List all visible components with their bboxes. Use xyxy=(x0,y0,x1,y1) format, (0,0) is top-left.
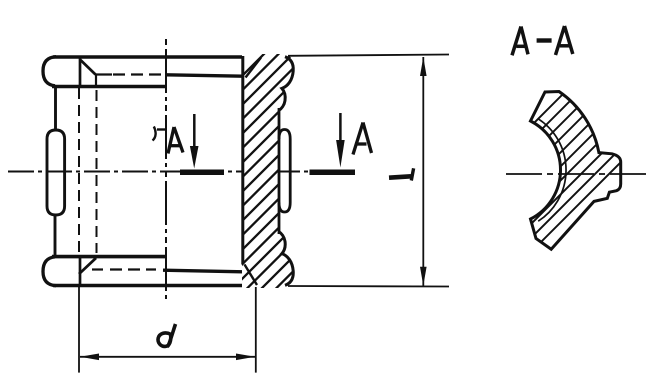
wire hatch band left edge xyxy=(241,56,244,265)
wire d dimension left extension line xyxy=(78,286,80,373)
node section label A left xyxy=(168,127,183,154)
node section cut mark left xyxy=(180,170,224,176)
node right band outline top bump xyxy=(279,57,293,111)
node left lug boss xyxy=(47,130,65,215)
wire L dimension top extension line xyxy=(288,55,449,56)
wire left body edge upper xyxy=(54,85,57,131)
wire hidden bore line left xyxy=(78,88,80,255)
node bottom-left end cap xyxy=(43,257,56,286)
wire section flag tick xyxy=(157,128,166,130)
node L dimension line with arrows xyxy=(422,57,424,286)
node d dimension line with arrows xyxy=(80,356,255,358)
wire bottom outline of body xyxy=(53,284,287,288)
wire hidden bore line inner left xyxy=(96,90,98,253)
wire bottom-left chamfer xyxy=(79,258,96,274)
node section arrow left xyxy=(193,114,196,148)
wire top-left chamfer xyxy=(80,60,96,75)
wire bottom inner line solid part xyxy=(92,268,103,270)
wire bottom inner line right of center xyxy=(163,270,243,272)
node right band outline bottom bump xyxy=(279,232,293,286)
node section A-A outline xyxy=(531,92,621,250)
wire bottom inner line hidden dashed xyxy=(110,268,156,270)
wire internal chamfer bottom right xyxy=(245,265,258,286)
wire hatch lines of section A-A xyxy=(495,75,650,288)
wire edge below top chamfer xyxy=(95,75,97,89)
wire left body edge lower xyxy=(54,214,57,257)
wire hatch lines of sectioned wall xyxy=(226,18,314,339)
wire bottom waist thick line xyxy=(52,255,166,259)
node top-left end cap xyxy=(43,57,56,86)
node section label A right xyxy=(353,123,372,155)
node right lug boss xyxy=(279,130,290,213)
wire top outline of body xyxy=(53,55,287,59)
wire d dimension right extension line xyxy=(255,287,257,373)
wire bottom-left cap right edge xyxy=(79,258,82,285)
node vertical centerline of coupling xyxy=(165,39,167,299)
wire L dimension bottom extension line xyxy=(288,285,449,288)
wire top inner line solid part xyxy=(96,73,113,75)
wire top-left cap right edge xyxy=(79,57,82,85)
wire top inner line right of center xyxy=(166,75,243,76)
node section flag left xyxy=(153,127,156,141)
node section arrow right xyxy=(339,113,342,142)
node section A-A title xyxy=(512,26,573,55)
wire internal chamfer top right xyxy=(246,58,262,78)
wire right wall edge xyxy=(278,108,281,234)
wire section A-A thread arc thin xyxy=(538,119,566,221)
node section cut mark right xyxy=(310,170,356,176)
wire top waist thick line xyxy=(52,85,166,89)
wire top inner line hidden dashed xyxy=(113,73,163,75)
node section A-A horizontal centerline xyxy=(506,173,648,175)
node L dimension label xyxy=(389,168,414,180)
node horizontal centerline of coupling xyxy=(8,171,312,173)
node d dimension label xyxy=(158,324,175,347)
